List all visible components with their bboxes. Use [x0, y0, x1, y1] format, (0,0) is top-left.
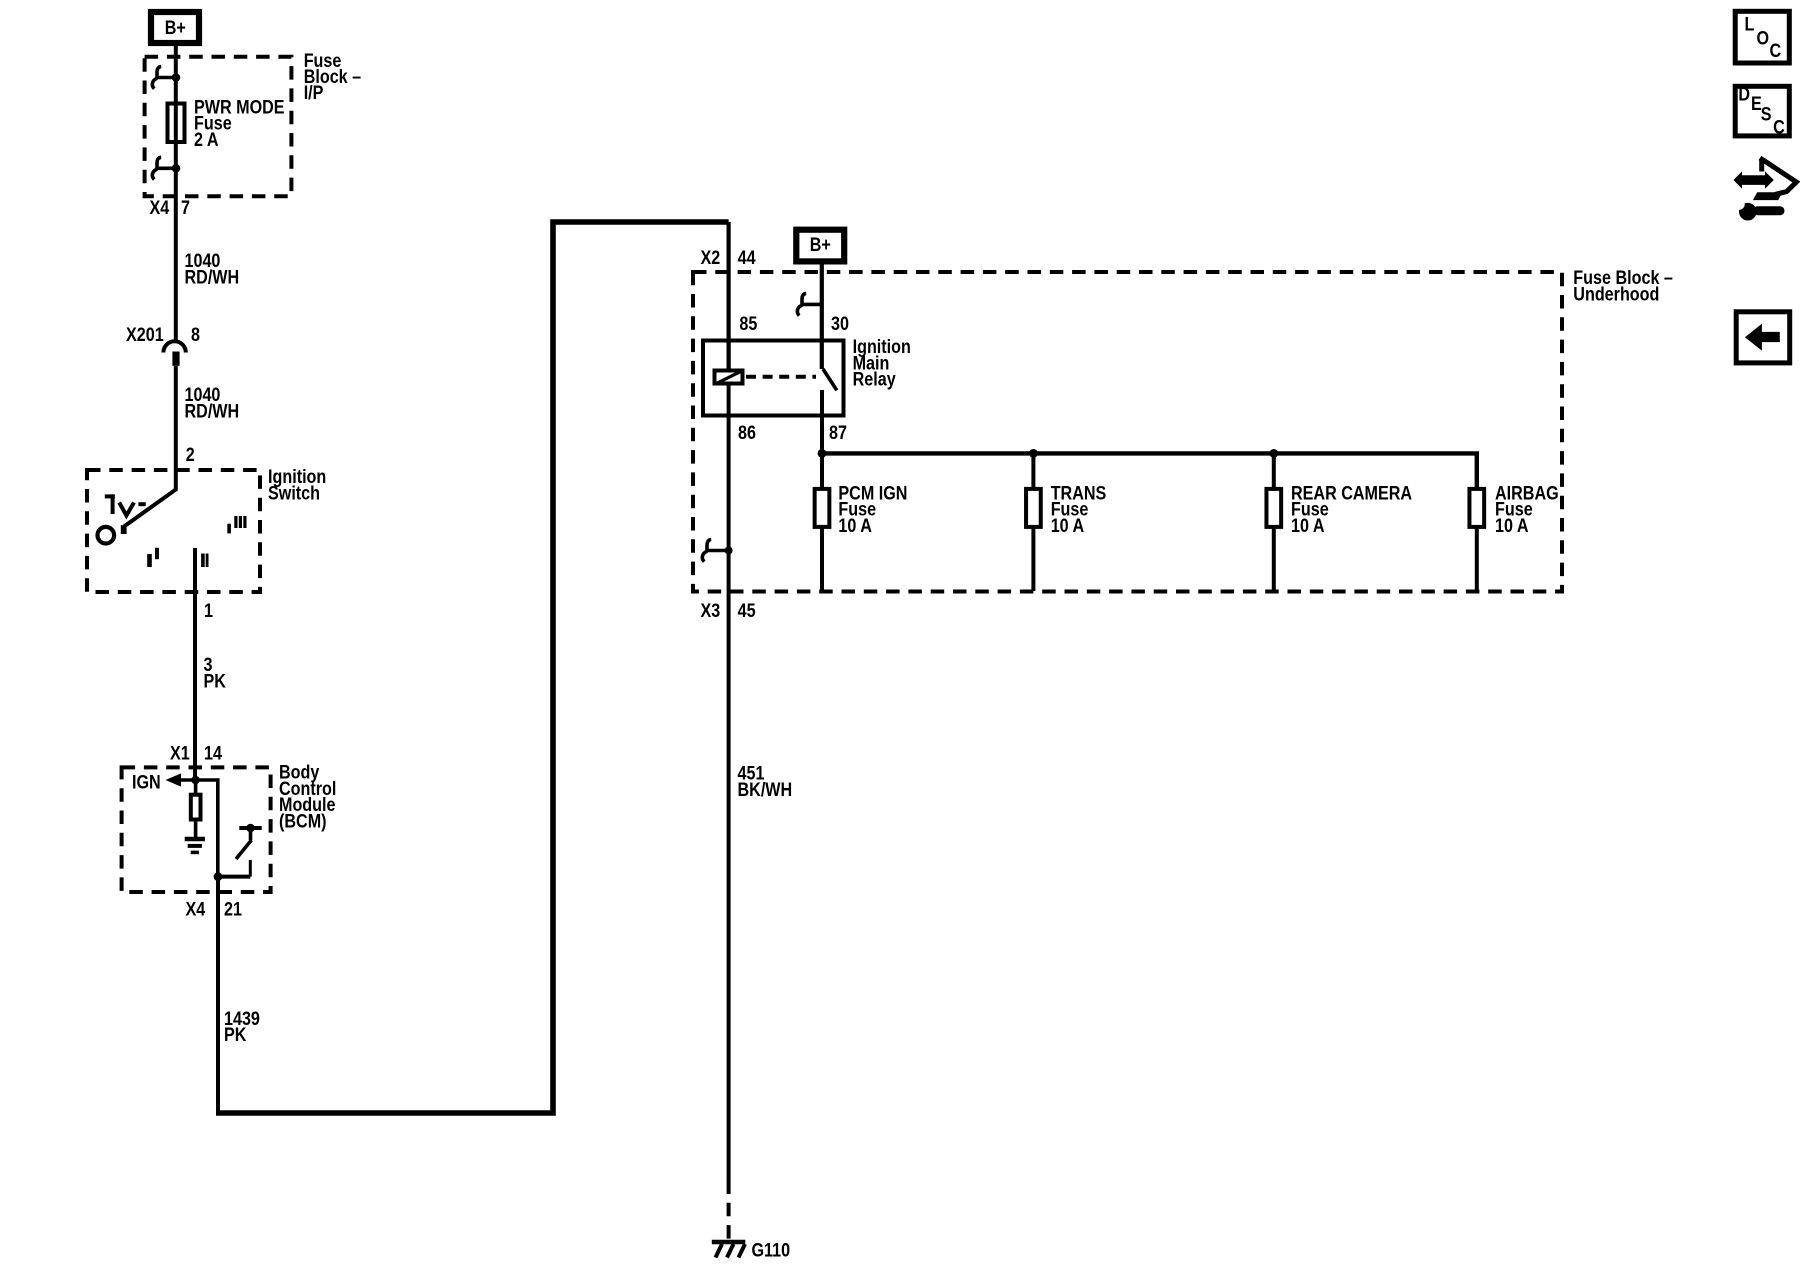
fuse block I/P dashed outline — [145, 57, 292, 196]
wire junction to BCM switch branch — [196, 780, 218, 877]
label Ignition Switch — [268, 466, 326, 504]
svg-text:Underhood: Underhood — [1573, 283, 1659, 305]
BCM sense switch — [218, 828, 262, 877]
pin label X4 21 — [186, 898, 243, 920]
svg-text:21: 21 — [224, 898, 242, 920]
routed wire BCM to X2-44 — [216, 222, 729, 1113]
connector terminal (B+ feed) — [797, 293, 821, 315]
svg-text:X4: X4 — [150, 197, 170, 219]
junction dot — [172, 164, 181, 173]
contact position III — [229, 516, 245, 533]
svg-text:PK: PK — [204, 670, 227, 692]
relay coil — [715, 339, 743, 384]
wire label 3 PK — [204, 654, 227, 692]
svg-text:2 A: 2 A — [194, 129, 219, 151]
icon DESC box — [1735, 83, 1789, 137]
ignition switch wiper arm from pin 2 — [121, 468, 176, 534]
svg-text:10 A: 10 A — [838, 515, 872, 537]
relay U1 ignition main relay outline — [703, 341, 844, 416]
svg-text:X3: X3 — [701, 600, 721, 622]
svg-text:10 A: 10 A — [1051, 515, 1085, 537]
pin label X3 45 — [701, 600, 756, 622]
fuse TRANS 10A — [1026, 453, 1041, 591]
wire label 1040 RD/WH — [185, 384, 240, 422]
wire label 1439 PK — [224, 1008, 260, 1046]
label PWR MODE Fuse 2 A — [194, 96, 285, 150]
svg-text:B+: B+ — [165, 17, 186, 39]
label Fuse Block - I/P — [304, 50, 362, 104]
contact position II with wire to pin 1 — [195, 548, 207, 780]
fuse PWR MODE 2A — [168, 104, 185, 143]
pin label X2 44 — [701, 247, 756, 269]
svg-text:C: C — [1773, 116, 1785, 138]
wire label 451 BK/WH — [738, 762, 793, 800]
svg-text:45: 45 — [738, 600, 756, 622]
IGN signal arrow — [166, 773, 196, 786]
svg-text:X201: X201 — [126, 324, 164, 346]
svg-text:C: C — [1770, 40, 1782, 62]
svg-text:1: 1 — [204, 600, 213, 622]
svg-text:S: S — [1761, 103, 1772, 125]
bus junction dots — [818, 449, 1279, 458]
icon back arrow box — [1736, 312, 1790, 363]
svg-text:L: L — [1745, 13, 1755, 35]
contact position I — [150, 548, 158, 567]
svg-text:RD/WH: RD/WH — [185, 400, 240, 422]
ground G110 — [712, 1242, 746, 1258]
svg-text:7: 7 — [181, 197, 190, 219]
svg-text:8: 8 — [191, 324, 200, 346]
pin label X4 7 — [150, 197, 191, 219]
svg-text:85: 85 — [739, 313, 757, 335]
svg-text:G110: G110 — [752, 1239, 791, 1261]
label Fuse Block - Underhood — [1573, 267, 1673, 305]
wire relay 86 to G110 (451 BK/WH) — [727, 386, 731, 1181]
svg-text:X2: X2 — [701, 247, 721, 269]
junction dot — [214, 872, 223, 881]
svg-text:(BCM): (BCM) — [279, 810, 327, 832]
switch contact dot — [246, 824, 255, 833]
svg-text:RD/WH: RD/WH — [185, 266, 240, 288]
label X201 8 — [126, 324, 200, 346]
icon LOC box — [1735, 11, 1789, 63]
body control module dashed outline — [122, 767, 271, 892]
label PCM IGN Fuse 10 A — [838, 482, 907, 536]
wire B+ to relay pin 30 — [820, 264, 824, 369]
wire B+ to X201 through PWR MODE fuse — [174, 46, 178, 341]
label REAR CAMERA Fuse 10 A — [1291, 482, 1412, 536]
svg-text:X1: X1 — [170, 742, 190, 764]
resistor (BCM pull-down) — [191, 780, 201, 837]
svg-text:X4: X4 — [186, 898, 206, 920]
connector terminal (fuse block I/P bottom) — [152, 157, 176, 179]
junction dot — [725, 547, 733, 555]
junction dot — [172, 73, 181, 82]
svg-text:B+: B+ — [810, 234, 831, 256]
wire label 1040 RD/WH — [185, 250, 240, 288]
svg-text:BK/WH: BK/WH — [738, 779, 793, 801]
svg-text:14: 14 — [204, 742, 222, 764]
relay switch blade — [823, 369, 837, 390]
connector terminal (fuse block I/P top) — [152, 67, 176, 89]
relay pin labels 85 30 — [739, 313, 849, 335]
svg-text:D: D — [1738, 83, 1750, 105]
svg-text:87: 87 — [829, 422, 847, 444]
accessory V mark — [119, 503, 134, 516]
svg-text:I/P: I/P — [304, 82, 324, 104]
wire BCM X4-21 down — [216, 877, 220, 1113]
svg-text:2: 2 — [186, 444, 195, 466]
svg-text:Switch: Switch — [268, 482, 320, 504]
svg-text:IGN: IGN — [132, 771, 161, 793]
label TRANS Fuse 10 A — [1051, 482, 1107, 536]
linkage dash — [138, 502, 145, 506]
fuse PCM IGN 10A — [815, 453, 830, 591]
dashed wire to ground — [727, 1181, 731, 1241]
svg-text:PK: PK — [224, 1024, 247, 1046]
svg-text:10 A: 10 A — [1291, 515, 1325, 537]
ground (BCM internal) — [185, 839, 205, 852]
svg-text:O: O — [1757, 27, 1770, 49]
connector terminal (X3-45) — [702, 540, 726, 562]
connector X201 pin 8 — [163, 341, 185, 366]
ignition switch dashed outline — [87, 470, 260, 592]
svg-text:86: 86 — [738, 422, 756, 444]
svg-text:44: 44 — [738, 247, 756, 269]
wire relay 87 to fuse bus — [820, 390, 824, 453]
node IGN input junction — [191, 776, 200, 785]
fuse AIRBAG 10A — [1469, 489, 1484, 591]
ignition switch rotor circle — [98, 527, 115, 544]
icon service navigation (arrows and wrench) — [1734, 158, 1797, 221]
label Body Control Module (BCM) — [279, 761, 336, 831]
fuse block underhood dashed outline — [693, 272, 1562, 592]
fuse bus from relay 87 — [822, 453, 1477, 489]
svg-text:10 A: 10 A — [1495, 515, 1529, 537]
svg-text:30: 30 — [831, 313, 849, 335]
wire drop into underhood fuse block — [726, 222, 730, 369]
lock position mark — [105, 494, 115, 514]
wire X201 to ignition switch — [174, 366, 178, 468]
power symbol B+ (I/P feed) — [151, 12, 199, 43]
power symbol B+ (underhood) — [796, 230, 844, 262]
relay pin labels 86 87 — [738, 422, 847, 444]
pin label X1 14 — [170, 742, 222, 764]
label Ignition Main Relay — [853, 336, 911, 390]
svg-text:Relay: Relay — [853, 368, 896, 390]
relay linkage dashed — [746, 375, 816, 379]
fuse REAR CAMERA 10A — [1266, 453, 1281, 591]
label AIRBAG Fuse 10 A — [1495, 482, 1559, 536]
